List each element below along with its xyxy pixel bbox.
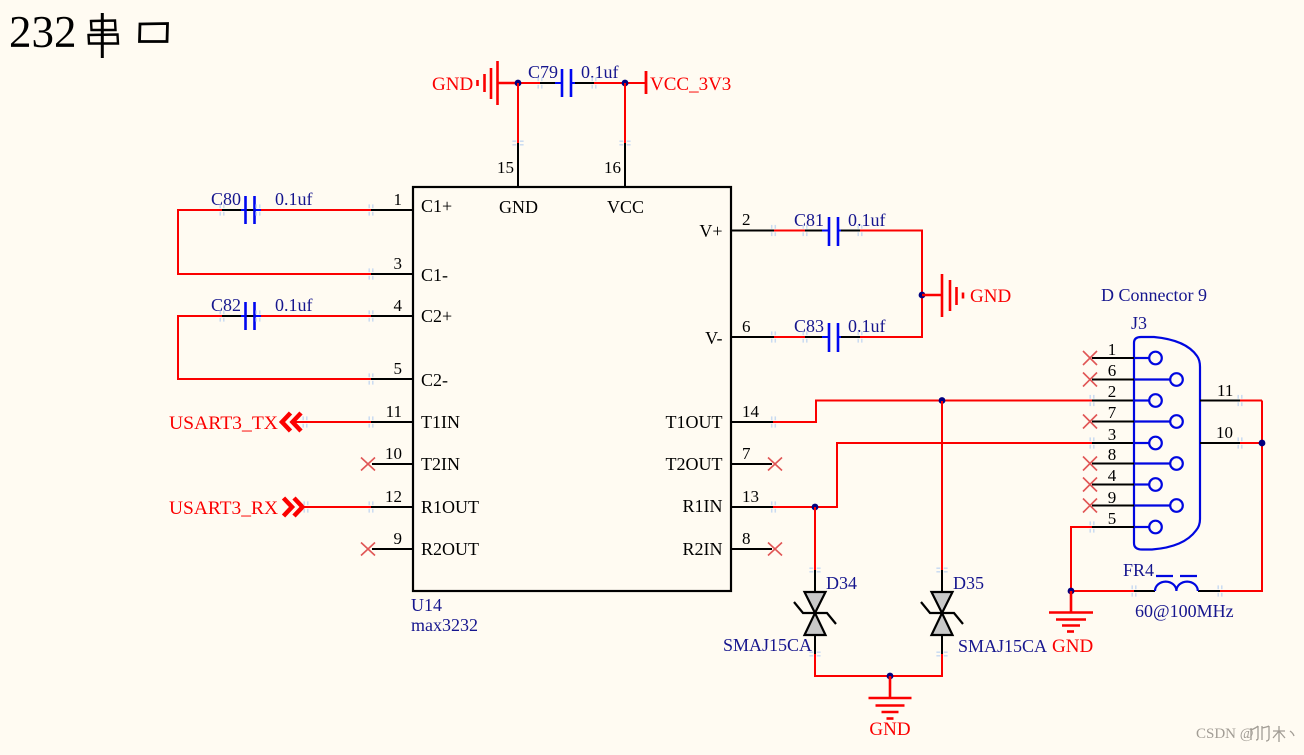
svg-text:10: 10: [1216, 423, 1233, 442]
svg-text:V-: V-: [705, 328, 722, 348]
svg-text:D Connector 9: D Connector 9: [1101, 285, 1207, 305]
wire pin5 to ground: [1071, 527, 1092, 591]
wire: [540, 82, 557, 84]
svg-text:0.1uf: 0.1uf: [275, 189, 313, 209]
svg-text:U14: U14: [411, 595, 442, 615]
power VCC_3V3 bar: [645, 71, 648, 94]
title 232串口: [9, 7, 168, 58]
wire D34 bottom: [815, 635, 890, 676]
svg-text:J3: J3: [1131, 313, 1147, 333]
svg-text:C1+: C1+: [421, 196, 452, 216]
svg-text:R2IN: R2IN: [683, 539, 723, 559]
svg-text:5: 5: [394, 359, 403, 378]
pin 10 stub: [372, 463, 413, 465]
pin 10 wire: [1200, 442, 1262, 444]
svg-text:3: 3: [1108, 425, 1117, 444]
svg-text:4: 4: [1108, 466, 1117, 485]
pin numbers J3: [1108, 340, 1117, 528]
svg-text:8: 8: [742, 529, 751, 548]
port USART3_TX: [169, 413, 301, 434]
wire T1IN: [293, 421, 414, 423]
wire pin16: [624, 83, 626, 187]
svg-text:6: 6: [742, 317, 751, 336]
pin 9 stub: [372, 548, 413, 550]
junction: [919, 292, 926, 299]
wire to D35: [941, 401, 943, 592]
svg-text:3: 3: [394, 254, 403, 273]
no-ERC marks: [220, 77, 1242, 655]
svg-text:7: 7: [742, 444, 751, 463]
svg-text:12: 12: [385, 487, 402, 506]
svg-text:1: 1: [1108, 340, 1117, 359]
svg-text:USART3_TX: USART3_TX: [169, 413, 278, 434]
pin 6 wire V-: [731, 336, 825, 338]
port USART3_RX: [169, 498, 303, 519]
svg-text:0.1uf: 0.1uf: [581, 62, 619, 82]
no-connect X: [768, 543, 782, 556]
svg-text:11: 11: [1217, 381, 1233, 400]
wire: [841, 295, 922, 337]
svg-text:C81: C81: [794, 210, 824, 230]
svg-text:GND: GND: [970, 286, 1011, 307]
svg-text:CSDN @: CSDN @: [1196, 726, 1254, 742]
wire right vertical: [1220, 401, 1262, 592]
wire: [841, 231, 922, 296]
junction: [887, 673, 894, 680]
svg-text:7: 7: [1108, 403, 1117, 422]
svg-text:0.1uf: 0.1uf: [848, 210, 886, 230]
watermark: [1196, 726, 1294, 742]
svg-text:4: 4: [394, 296, 403, 315]
svg-text:D35: D35: [953, 573, 984, 593]
connector J3 body: [1134, 337, 1200, 550]
svg-text:C82: C82: [211, 295, 241, 315]
capacitor C82: [239, 302, 262, 330]
svg-text:FR4: FR4: [1123, 560, 1154, 580]
junction: [622, 80, 629, 87]
svg-text:232: 232: [9, 7, 77, 57]
svg-text:R1OUT: R1OUT: [421, 497, 479, 517]
J3 pin circles: [1149, 352, 1183, 534]
ground GND (below J3/FR4): [1049, 591, 1093, 632]
junction: [515, 80, 522, 87]
svg-text:9: 9: [394, 529, 403, 548]
svg-text:6: 6: [1108, 361, 1117, 380]
wire: [594, 82, 646, 84]
svg-text:max3232: max3232: [411, 615, 478, 635]
svg-text:C79: C79: [528, 62, 558, 82]
no-connect X: [768, 458, 782, 471]
svg-text:C1-: C1-: [421, 265, 448, 285]
inductor FR4 ferrite bead: [1134, 576, 1220, 591]
svg-text:SMAJ15CA: SMAJ15CA: [958, 636, 1047, 656]
wire: [575, 82, 594, 84]
svg-text:9: 9: [1108, 488, 1117, 507]
J3 left pin wires: [1092, 358, 1134, 527]
op-amp U14 max3232 body: [413, 187, 731, 591]
no-connect X: [361, 458, 375, 471]
svg-text:13: 13: [742, 487, 759, 506]
svg-text:14: 14: [742, 402, 760, 421]
junction: [812, 504, 819, 511]
svg-text:VCC: VCC: [607, 197, 644, 217]
ground GND (below D34/D35): [869, 676, 912, 719]
wire: [518, 82, 540, 84]
svg-text:C80: C80: [211, 189, 241, 209]
pin 8 stub: [731, 548, 772, 550]
pin 13 wire R1IN: [731, 443, 1134, 507]
svg-text:R1IN: R1IN: [683, 496, 723, 516]
svg-text:1: 1: [394, 190, 403, 209]
pin 7 stub: [731, 463, 772, 465]
svg-text:T1IN: T1IN: [421, 412, 460, 432]
svg-text:0.1uf: 0.1uf: [275, 295, 313, 315]
pin 1 wire: [241, 209, 413, 211]
no-connect X marks J3: [1083, 351, 1097, 513]
svg-text:15: 15: [497, 158, 514, 177]
ground GND (top left, pointing left): [478, 61, 519, 105]
capacitor C83: [822, 323, 845, 352]
ground GND (right of V+/V-, pointing right): [922, 274, 963, 317]
svg-text:R2OUT: R2OUT: [421, 539, 479, 559]
wire C80 left loop: [178, 210, 413, 274]
wire R1OUT: [304, 506, 414, 508]
junction: [1068, 588, 1075, 595]
svg-text:5: 5: [1108, 509, 1117, 528]
svg-text:GND: GND: [432, 74, 473, 95]
svg-text:60@100MHz: 60@100MHz: [1135, 601, 1234, 621]
pin 14 wire T1OUT: [731, 401, 1134, 423]
svg-text:GND: GND: [869, 719, 910, 740]
svg-text:C83: C83: [794, 316, 824, 336]
transistor D35 TVS diode: [921, 592, 963, 635]
svg-text:V+: V+: [699, 221, 722, 241]
transistor D34 TVS diode: [794, 592, 836, 635]
wire D35 bottom: [890, 635, 942, 676]
pin 2 wire V+: [731, 230, 825, 232]
svg-text:GND: GND: [1052, 636, 1093, 657]
svg-text:C2+: C2+: [421, 306, 452, 326]
capacitor C81: [822, 217, 845, 246]
svg-text:2: 2: [742, 210, 751, 229]
svg-text:10: 10: [385, 444, 402, 463]
svg-text:0.1uf: 0.1uf: [848, 316, 886, 336]
svg-text:2: 2: [1108, 382, 1117, 401]
svg-text:USART3_RX: USART3_RX: [169, 498, 278, 519]
svg-text:VCC_3V3: VCC_3V3: [650, 74, 731, 95]
junction: [1259, 440, 1266, 447]
wire pin15: [517, 83, 519, 187]
pin 11 wire: [1200, 400, 1262, 402]
no-connect X: [361, 543, 375, 556]
svg-text:11: 11: [386, 402, 402, 421]
svg-text:SMAJ15CA: SMAJ15CA: [723, 635, 812, 655]
svg-text:GND: GND: [499, 197, 538, 217]
svg-text:T2IN: T2IN: [421, 454, 460, 474]
wire to D34: [814, 507, 816, 592]
svg-text:16: 16: [604, 158, 621, 177]
svg-text:T2OUT: T2OUT: [666, 454, 723, 474]
svg-text:T1OUT: T1OUT: [666, 412, 723, 432]
wire FR4 to ground: [1071, 590, 1134, 592]
svg-text:D34: D34: [826, 573, 857, 593]
junction: [939, 397, 946, 404]
svg-text:C2-: C2-: [421, 370, 448, 390]
wire C82 left loop: [178, 316, 413, 379]
pin 4 wire: [241, 315, 413, 317]
svg-text:8: 8: [1108, 445, 1117, 464]
capacitor C80: [239, 196, 262, 224]
J3 pin stubs (blue): [1134, 358, 1170, 527]
capacitor C79: [555, 69, 578, 97]
